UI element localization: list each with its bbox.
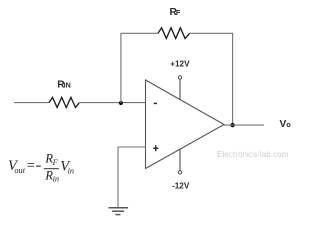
node inverting input junction <box>119 101 123 105</box>
svg-text:+12V: +12V <box>170 60 190 69</box>
svg-text:F: F <box>176 8 181 17</box>
svg-text:out: out <box>14 166 25 175</box>
svg-text:IN: IN <box>64 81 71 90</box>
ground <box>109 207 129 209</box>
wire input left segment <box>14 102 49 104</box>
wire output from op-amp apex <box>224 124 264 126</box>
node output junction <box>230 123 234 127</box>
power -12V terminal <box>178 171 181 174</box>
power +12V terminal <box>178 76 181 79</box>
svg-text:in: in <box>53 175 59 184</box>
wire non-inverting input horizontal + vertical to ground <box>118 147 146 207</box>
op-amp inverting input marker - <box>154 102 157 104</box>
svg-text:o: o <box>286 120 291 129</box>
svg-text:F: F <box>52 158 59 167</box>
svg-text:in: in <box>68 167 74 176</box>
svg-text:-12V: -12V <box>172 182 190 191</box>
wire RIN to op-amp inverting input <box>79 102 145 104</box>
resistor RIN <box>49 97 79 107</box>
wire feedback top right horizontal + right vertical <box>190 33 233 125</box>
formula Vout = -(RF/Rin)Vin <box>8 151 74 183</box>
wire V- supply lead <box>179 149 181 170</box>
resistor RF <box>158 28 190 39</box>
svg-text:Electronics-lab.com: Electronics-lab.com <box>217 150 289 159</box>
op-amp U1 triangle <box>146 80 225 169</box>
wire feedback left vertical + top left horizontal <box>121 33 158 103</box>
svg-text:=: = <box>26 158 36 174</box>
wire V+ supply lead <box>179 79 181 99</box>
op-amp non-inverting input marker + <box>153 145 158 151</box>
